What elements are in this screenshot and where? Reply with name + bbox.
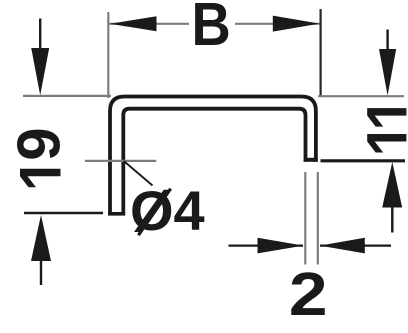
arrowhead B right <box>273 16 320 32</box>
label 19: digit 1 (custom glyph) <box>20 169 61 188</box>
arrow 11 bottom (up) <box>382 162 402 208</box>
dimension line B right segment <box>235 23 320 25</box>
Ø slash extension <box>138 189 170 236</box>
extension line 19 bottom <box>24 212 103 214</box>
label 11: upper digit 1 (custom glyph) <box>367 108 406 127</box>
extension line 11 top <box>318 95 404 97</box>
arrowhead B left <box>110 16 157 31</box>
dimension line 2 left segment <box>229 245 304 247</box>
profile left leg end cap <box>108 212 125 216</box>
arrowhead 2 right (points left) <box>320 238 365 254</box>
svg-text:B: B <box>192 0 231 59</box>
extension line 19 top <box>23 95 111 97</box>
extension line 11 bottom <box>321 159 406 162</box>
extension line B right <box>320 9 322 97</box>
arrow 19 top (down) <box>39 19 41 53</box>
arrow 19 bottom (up) <box>31 215 51 261</box>
dimension line 2 right segment <box>320 245 391 247</box>
label 11: lower digit 1 (custom glyph) <box>367 134 406 153</box>
extension line B left <box>107 12 109 98</box>
leader line Ø4 <box>124 161 153 186</box>
profile inner contour <box>123 109 305 216</box>
profile right leg end cap <box>304 158 318 162</box>
extension line 2 left <box>304 172 306 265</box>
hole centre line <box>85 160 156 162</box>
arrow 11 top (down) <box>386 30 388 53</box>
svg-text:2: 2 <box>289 260 328 328</box>
extension line 2 right <box>317 172 319 265</box>
arrowhead 2 left (points right) <box>258 238 304 254</box>
dimension line B left segment <box>109 23 189 25</box>
profile outer contour <box>110 97 316 216</box>
svg-text:9: 9 <box>6 127 73 160</box>
